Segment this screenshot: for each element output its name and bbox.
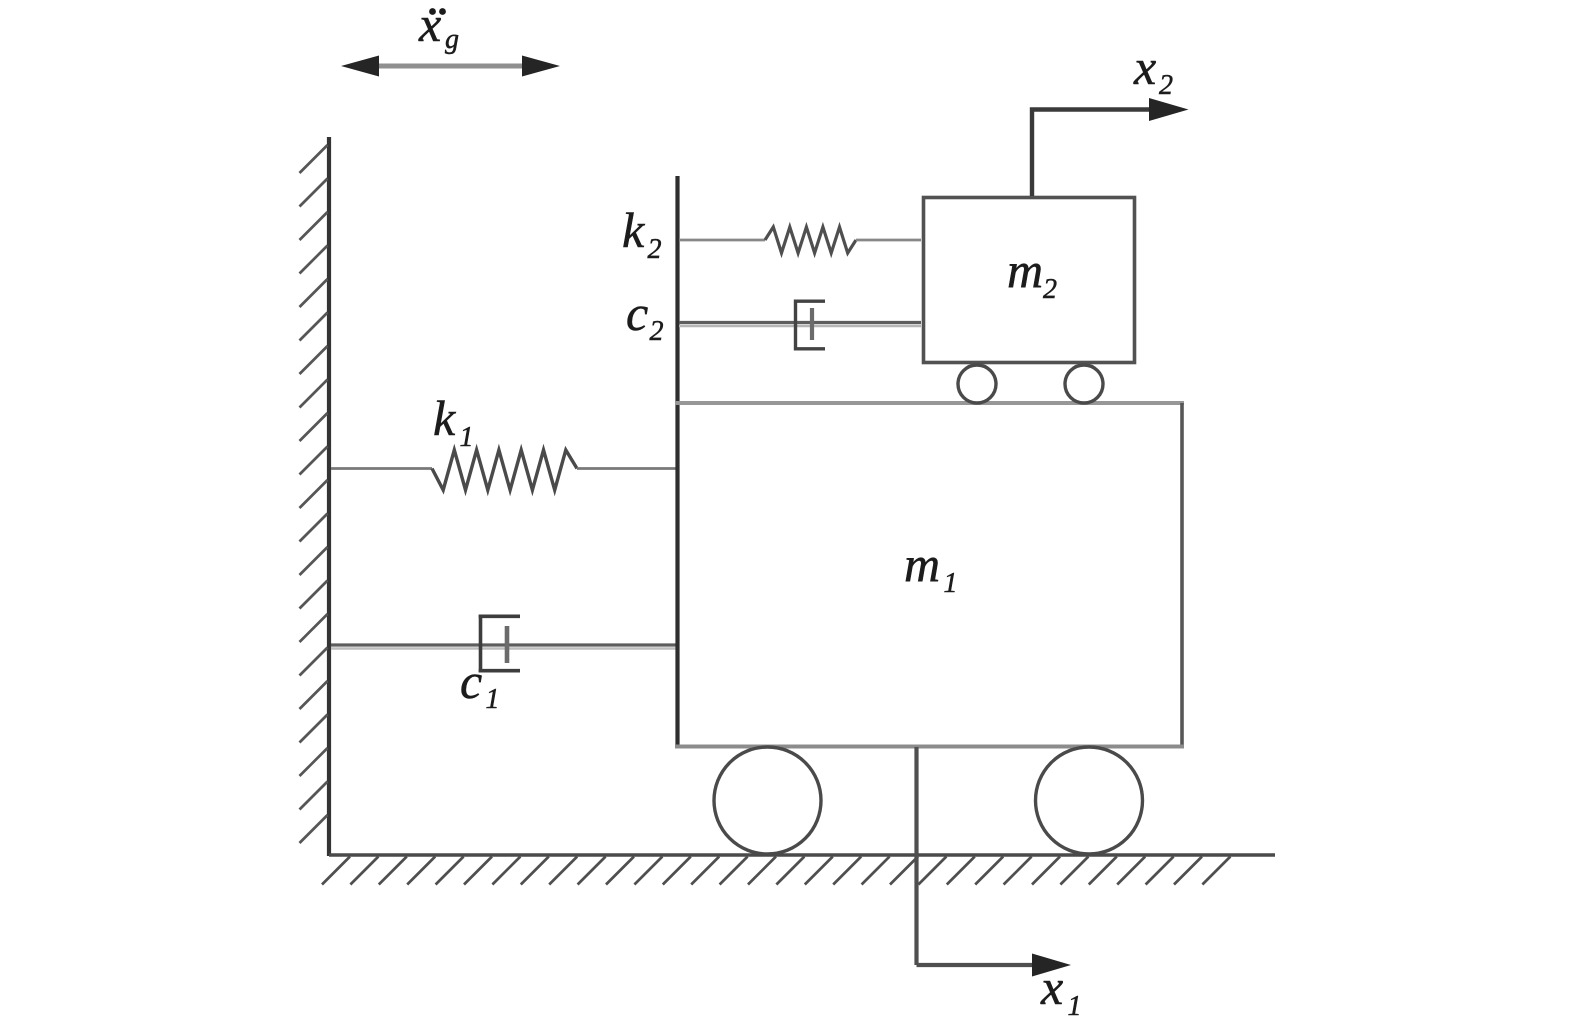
spring k2	[679, 227, 921, 253]
x2 displacement arrow	[1032, 98, 1189, 196]
svg-text:1: 1	[486, 684, 500, 715]
label m2	[1007, 242, 1057, 305]
label x2	[1133, 39, 1173, 101]
wall hatching	[300, 145, 328, 843]
svg-text:2: 2	[648, 234, 662, 265]
damper c1 cylinder	[479, 615, 520, 673]
damper c2 rod	[679, 321, 921, 324]
ground-motion double arrow	[341, 56, 560, 77]
svg-text:m: m	[1007, 242, 1043, 298]
svg-text:1: 1	[460, 422, 474, 453]
label k2	[622, 202, 662, 265]
ground hatching	[322, 857, 1230, 885]
svg-text:2: 2	[650, 316, 664, 347]
svg-text:x: x	[1133, 39, 1156, 95]
damper c1 rod	[331, 643, 676, 646]
label c1	[460, 653, 500, 715]
spring k1	[331, 450, 676, 490]
label x-ddot-g (ground acceleration)	[418, 0, 459, 55]
svg-text:x: x	[1040, 959, 1063, 1015]
svg-text:1: 1	[944, 568, 958, 599]
svg-text:c: c	[626, 285, 648, 341]
label c2	[626, 285, 664, 347]
svg-text:k: k	[622, 202, 645, 258]
wall (left support)	[327, 137, 331, 856]
damper c1 piston	[505, 626, 510, 663]
damper c2 piston	[810, 308, 814, 340]
rollers between m2 and m1	[958, 365, 996, 403]
damper c2 cylinder	[794, 300, 825, 351]
label m1	[904, 536, 958, 599]
svg-text:x: x	[418, 0, 441, 52]
frame vertical line / m1 left edge	[675, 176, 679, 747]
svg-text:c: c	[460, 653, 482, 709]
ground line	[329, 853, 1275, 856]
svg-text:g: g	[445, 24, 459, 55]
label x1	[1040, 959, 1082, 1022]
svg-text:1: 1	[1068, 991, 1082, 1022]
svg-text:m: m	[904, 536, 940, 592]
label k1	[433, 390, 474, 453]
svg-text:2: 2	[1159, 70, 1173, 101]
x1 displacement arrow	[917, 747, 1072, 977]
mass m2 box	[924, 198, 1135, 363]
svg-text:k: k	[433, 390, 456, 446]
svg-text:2: 2	[1043, 274, 1057, 305]
mass m1 box	[675, 403, 1184, 747]
wheels under m1	[714, 747, 821, 854]
